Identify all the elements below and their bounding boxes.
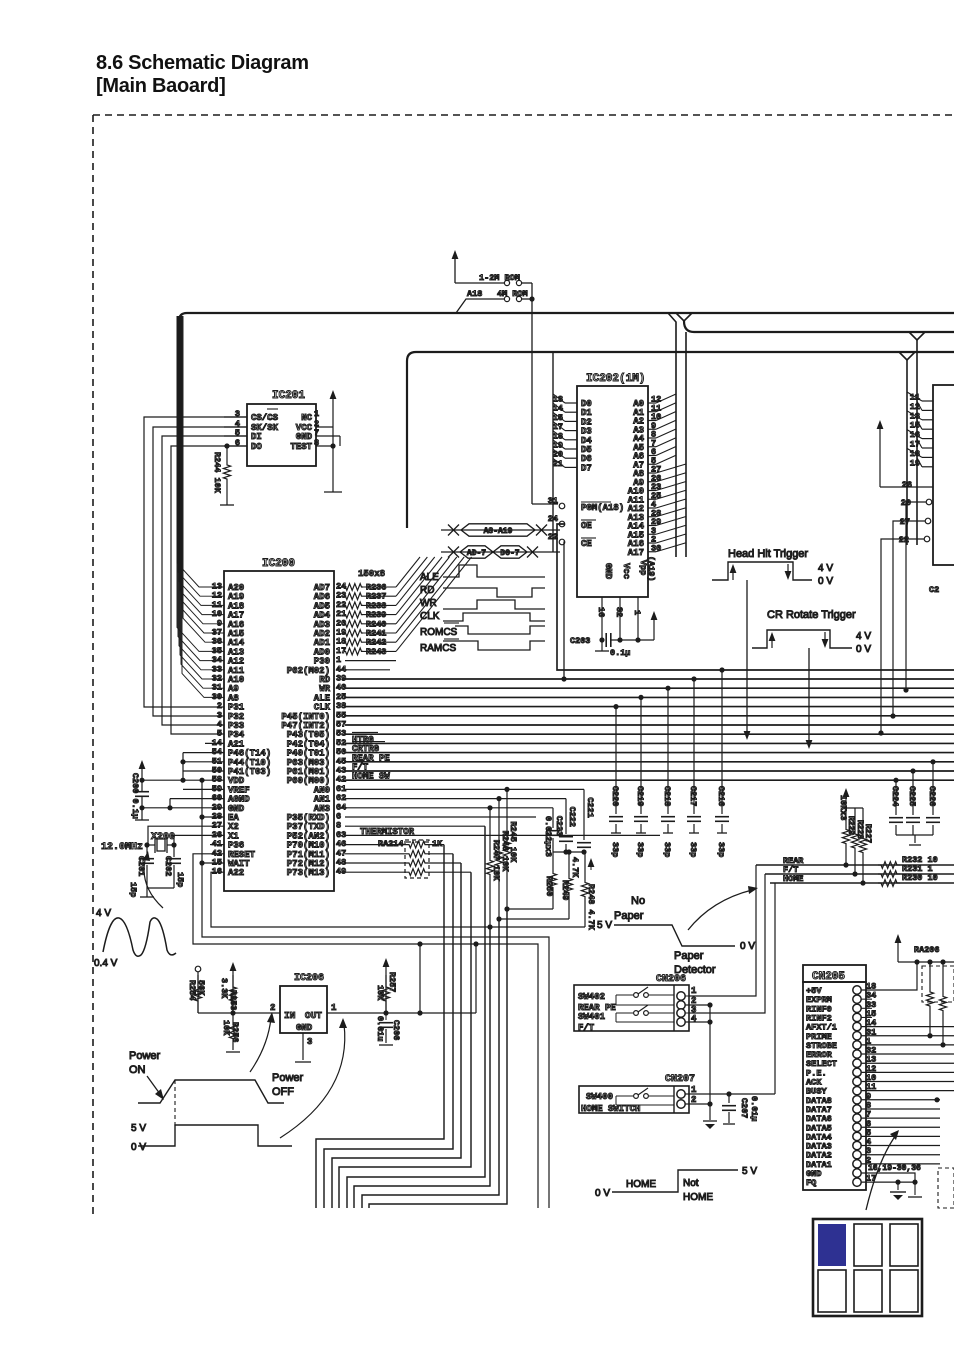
svg-text:R256: R256: [230, 1022, 240, 1042]
svg-text:R230 10: R230 10: [902, 873, 938, 883]
svg-text:CLK: CLK: [420, 611, 440, 622]
svg-text:FQ: FQ: [806, 1178, 816, 1188]
svg-text:GND: GND: [603, 563, 613, 580]
svg-text:C220: C220: [610, 786, 620, 806]
svg-text:HOME: HOME: [783, 874, 803, 884]
svg-text:3: 3: [307, 1037, 312, 1047]
svg-text:NC: NC: [301, 413, 312, 423]
svg-text:R253: R253: [228, 990, 238, 1010]
svg-text:16,19-30,36: 16,19-30,36: [868, 1164, 921, 1173]
svg-text:0 V: 0 V: [740, 941, 755, 952]
svg-text:0 V: 0 V: [131, 1142, 146, 1153]
svg-text:26: 26: [902, 480, 912, 490]
svg-text:IC200: IC200: [262, 558, 295, 570]
svg-text:5 V: 5 V: [131, 1123, 146, 1134]
svg-text:C216: C216: [716, 786, 726, 806]
svg-text:RAMCS: RAMCS: [420, 643, 456, 654]
svg-text:No: No: [631, 895, 645, 907]
svg-text:SW402: SW402: [578, 992, 605, 1002]
svg-text:CS/CS: CS/CS: [251, 413, 279, 423]
svg-text:5 V: 5 V: [597, 920, 612, 931]
svg-text:0.022µx3: 0.022µx3: [543, 816, 553, 857]
svg-text:CR Rotate Trigger: CR Rotate Trigger: [767, 609, 856, 621]
svg-text:CE: CE: [581, 539, 592, 549]
svg-text:15p: 15p: [175, 872, 185, 887]
svg-text:SW400: SW400: [586, 1092, 613, 1102]
svg-text:ROMCS: ROMCS: [420, 627, 458, 638]
svg-text:ON: ON: [129, 1064, 146, 1076]
svg-text:(A19): (A19): [646, 556, 656, 582]
svg-text:27: 27: [900, 517, 910, 527]
svg-text:16: 16: [596, 607, 606, 617]
svg-text:CN206: CN206: [656, 974, 686, 985]
svg-text:R228: R228: [855, 820, 864, 839]
svg-text:4 V: 4 V: [856, 631, 871, 642]
svg-text:0 V: 0 V: [856, 644, 871, 655]
svg-text:150x8: 150x8: [358, 569, 385, 579]
svg-text:4 V: 4 V: [96, 908, 111, 919]
svg-text:0 V: 0 V: [818, 576, 833, 587]
svg-text:C203: C203: [570, 636, 590, 646]
svg-text:1: 1: [691, 986, 697, 996]
svg-text:Head Hit Trigger: Head Hit Trigger: [728, 548, 808, 560]
svg-text:3.3K: 3.3K: [219, 978, 229, 999]
svg-text:1: 1: [632, 610, 642, 615]
svg-text:R248 4.7K: R248 4.7K: [586, 884, 596, 931]
svg-text:A18: A18: [467, 289, 482, 299]
svg-text:4 V: 4 V: [818, 563, 833, 574]
svg-text:D0-7: D0-7: [500, 549, 519, 558]
svg-text:P73(M13): P73(M13): [287, 868, 330, 878]
svg-text:AD-7: AD-7: [467, 549, 486, 558]
svg-text:RD: RD: [420, 585, 434, 596]
svg-text:IC202(1M): IC202(1M): [586, 373, 645, 385]
svg-text:22: 22: [899, 535, 909, 545]
svg-text:IC206: IC206: [294, 973, 324, 984]
svg-text:24: 24: [548, 514, 558, 524]
svg-text:CN207: CN207: [665, 1074, 695, 1085]
svg-text:C225: C225: [907, 786, 917, 806]
svg-text:0.01u: 0.01u: [375, 1016, 385, 1042]
svg-text:A22: A22: [228, 868, 244, 878]
svg-text:R254: R254: [187, 980, 197, 1000]
svg-text:33p: 33p: [688, 842, 698, 857]
svg-text:30: 30: [651, 543, 661, 553]
svg-text:A8-A19: A8-A19: [484, 527, 513, 536]
svg-text:IN: IN: [284, 1010, 296, 1021]
svg-text:33p: 33p: [610, 842, 620, 857]
svg-text:HOME: HOME: [626, 1179, 656, 1190]
svg-text:33p: 33p: [635, 842, 645, 857]
svg-text:19: 19: [910, 458, 920, 468]
svg-text:IC201: IC201: [272, 390, 305, 402]
svg-text:OUT: OUT: [305, 1010, 322, 1021]
svg-text:ALE: ALE: [420, 572, 439, 583]
svg-text:C221: C221: [585, 797, 595, 817]
svg-text:C202: C202: [163, 856, 173, 876]
svg-text:C222: C222: [567, 807, 577, 827]
svg-text:C2: C2: [929, 585, 939, 595]
svg-text:Power: Power: [129, 1050, 161, 1062]
svg-text:C206: C206: [391, 1020, 401, 1040]
svg-text:1: 1: [314, 409, 319, 419]
svg-text:GND: GND: [296, 432, 313, 442]
svg-text:R244 10K: R244 10K: [212, 452, 222, 494]
svg-text:F/T: F/T: [578, 1023, 595, 1033]
svg-text:DO: DO: [251, 442, 262, 452]
svg-text:R249: R249: [560, 880, 570, 900]
svg-text:C200 0.1µ: C200 0.1µ: [130, 773, 140, 819]
svg-text:RA206: RA206: [914, 945, 940, 955]
svg-text:33p: 33p: [716, 842, 726, 857]
svg-text:HOME: HOME: [683, 1192, 713, 1203]
svg-text:5 V: 5 V: [742, 1166, 757, 1177]
svg-text:C226: C226: [927, 786, 937, 806]
svg-text:SW401: SW401: [578, 1012, 606, 1022]
svg-text:OFF: OFF: [272, 1086, 294, 1098]
svg-text:C218: C218: [662, 786, 672, 806]
svg-text:Vcc: Vcc: [621, 563, 631, 579]
svg-text:C217: C217: [688, 786, 698, 806]
svg-text:4M ROM: 4M ROM: [497, 289, 528, 299]
svg-text:56K: 56K: [196, 980, 206, 996]
svg-text:C223: C223: [554, 816, 564, 836]
svg-text:OE: OE: [581, 521, 592, 531]
svg-text:Not: Not: [683, 1178, 699, 1189]
svg-text:Power: Power: [272, 1072, 304, 1084]
svg-text:0 V: 0 V: [595, 1188, 610, 1199]
svg-text:R257: R257: [387, 972, 397, 992]
svg-text:32: 32: [614, 607, 624, 617]
svg-text:15p: 15p: [128, 882, 138, 897]
svg-text:WR: WR: [420, 598, 437, 609]
svg-text:C207: C207: [739, 1098, 749, 1118]
svg-text:C224: C224: [890, 786, 900, 806]
svg-text:TEST: TEST: [290, 442, 312, 452]
svg-text:1-2M ROM: 1-2M ROM: [479, 273, 520, 283]
svg-text:A17: A17: [628, 548, 644, 558]
svg-text:C219: C219: [635, 786, 645, 806]
svg-text:49: 49: [336, 867, 346, 877]
svg-text:PGM(A18): PGM(A18): [581, 503, 624, 513]
svg-text:2: 2: [270, 1003, 275, 1013]
svg-text:0.4 V: 0.4 V: [94, 958, 118, 969]
svg-text:1: 1: [331, 1003, 337, 1013]
svg-text:4.7K: 4.7K: [570, 857, 580, 878]
svg-text:33p: 33p: [662, 842, 672, 857]
svg-text:10K: 10K: [375, 985, 385, 1001]
svg-text:12.0MHz: 12.0MHz: [101, 842, 143, 853]
svg-text:Paper: Paper: [614, 910, 644, 922]
svg-text:21: 21: [553, 459, 563, 469]
svg-text:R229: R229: [846, 816, 855, 835]
svg-text:DI: DI: [251, 432, 262, 442]
svg-text:R227: R227: [863, 824, 872, 843]
svg-text:GND: GND: [296, 1023, 313, 1033]
svg-text:R250: R250: [544, 876, 554, 896]
svg-text:0.01µ: 0.01µ: [749, 1096, 759, 1122]
svg-text:31: 31: [548, 496, 558, 506]
svg-text:10K: 10K: [221, 1020, 231, 1036]
svg-text:D7: D7: [581, 463, 592, 473]
svg-text:Paper: Paper: [674, 950, 704, 962]
svg-text:0.1µ: 0.1µ: [610, 648, 630, 658]
